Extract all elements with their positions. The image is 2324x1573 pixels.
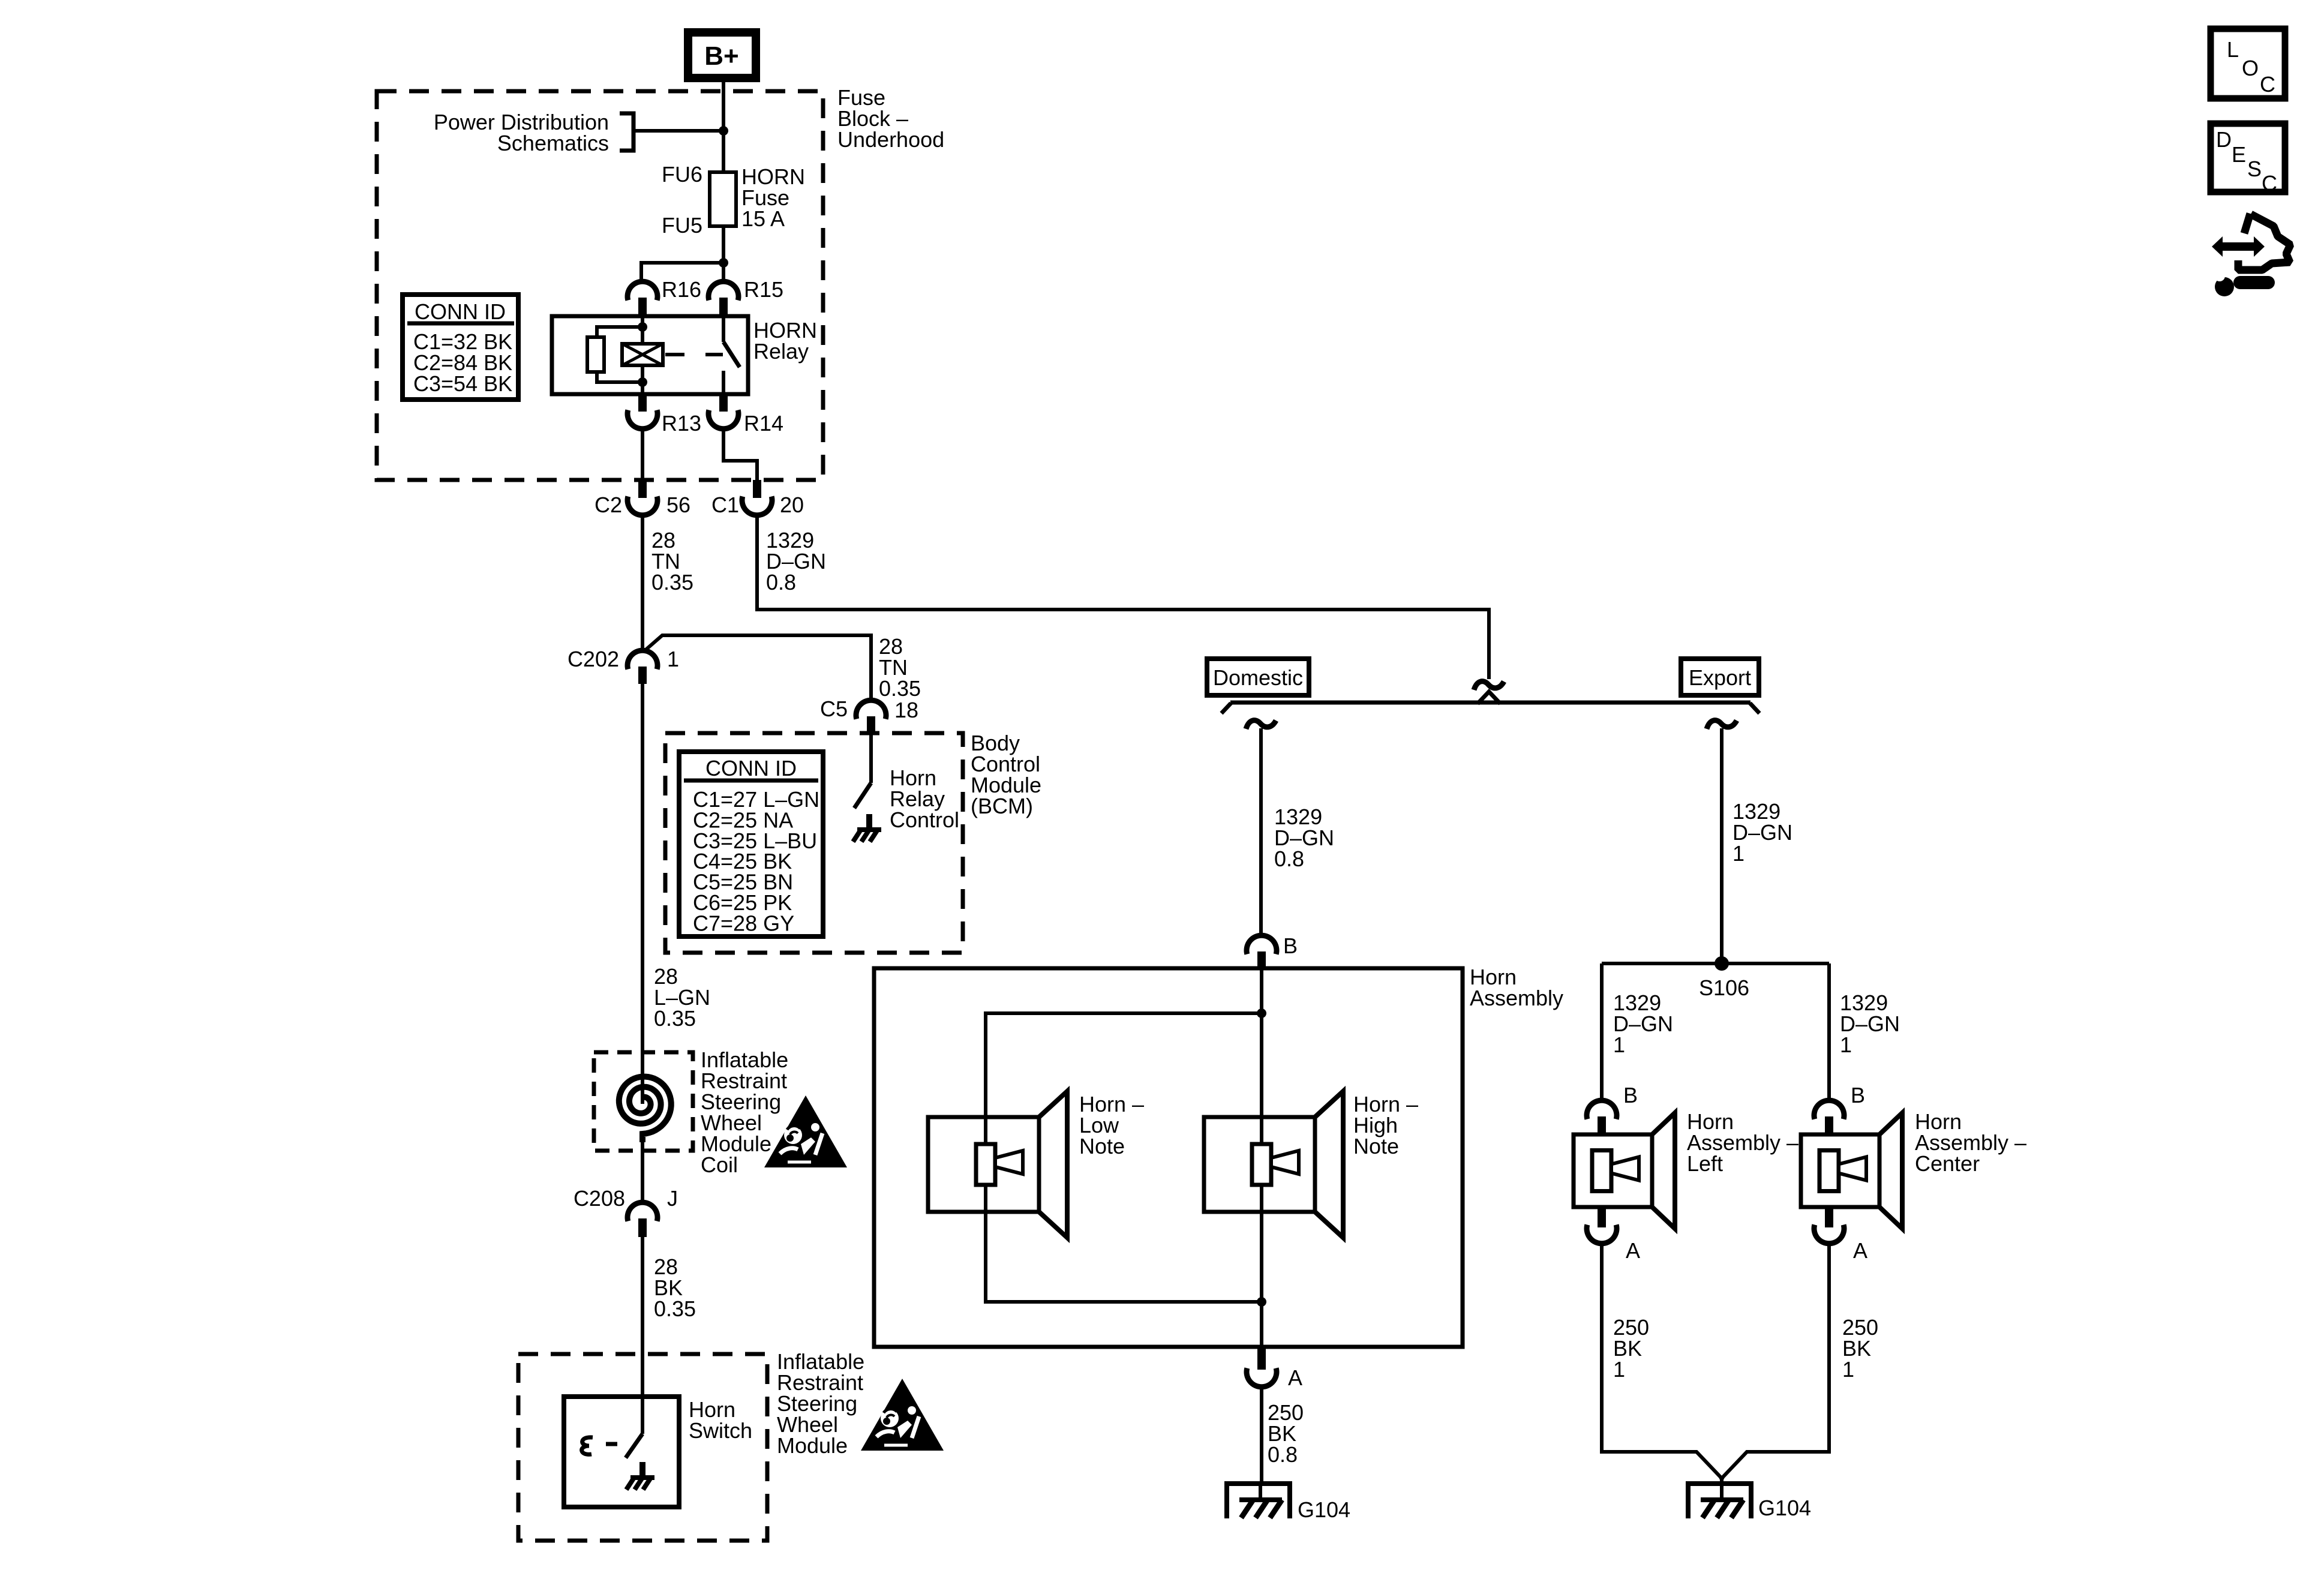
svg-text:1: 1 xyxy=(667,647,679,671)
wire C202 to coil / label 28 L-GN 0.35 xyxy=(641,684,644,1104)
relay coil X-box xyxy=(622,344,663,365)
svg-text:A: A xyxy=(1288,1365,1302,1390)
wire C2 to C202 / label 28 TN 0.35 xyxy=(641,514,644,651)
connector C208 pin J xyxy=(627,1202,657,1237)
wire C1 down and across / label 1329 D-GN 0.8 xyxy=(757,514,1489,679)
ground G104 export xyxy=(1720,1477,1724,1484)
wire R14 to C1 xyxy=(723,428,757,481)
connector A horn left xyxy=(1587,1207,1617,1244)
wire left export drop / label 1329 D-GN 1 left xyxy=(1600,963,1604,1101)
horn assembly center speaker xyxy=(1801,1113,1902,1229)
relay switch xyxy=(723,316,740,394)
wire export branch / label 1329 D-GN 1 xyxy=(1720,728,1724,963)
options bracket xyxy=(1221,692,1759,713)
svg-text:HORNRelay: HORNRelay xyxy=(753,318,817,364)
svg-text:C5: C5 xyxy=(820,697,848,721)
icon box LOC xyxy=(2211,29,2285,98)
svg-text:20: 20 xyxy=(780,493,804,517)
svg-text:G104: G104 xyxy=(1758,1496,1811,1520)
svg-text:O: O xyxy=(2242,56,2259,80)
connector C202 pin 1 xyxy=(627,650,657,684)
wire power distribution tap xyxy=(635,129,723,133)
wire C208 to horn switch / label 28 BK 0.35 xyxy=(641,1237,644,1434)
svg-text:18: 18 xyxy=(894,698,918,722)
junction dot power tap xyxy=(719,126,728,136)
svg-text:C208: C208 xyxy=(574,1186,625,1211)
horn high note speaker xyxy=(1204,1091,1343,1238)
ground in horn switch xyxy=(626,1462,654,1490)
wire left horn to ground / label 250 BK 1 xyxy=(1602,1243,1722,1479)
svg-text:C: C xyxy=(2260,72,2275,97)
svg-text:C1=32 BKC2=84 BKC3=54 BK: C1=32 BKC2=84 BKC3=54 BK xyxy=(413,329,512,396)
svg-text:B: B xyxy=(1851,1083,1865,1107)
junction dot coil bottom xyxy=(638,377,647,387)
resistor parallel loop xyxy=(587,327,642,382)
svg-text:R16: R16 xyxy=(662,277,701,302)
connector B horn center xyxy=(1814,1100,1844,1134)
connector C2 pin 56 xyxy=(627,480,657,515)
junction dot loop top xyxy=(1257,1008,1266,1018)
horn switch inner box xyxy=(564,1397,679,1507)
inner loop wiring xyxy=(986,1013,1262,1302)
wire A to ground / label 250 BK 0.8 xyxy=(1260,1385,1263,1484)
svg-text:R15: R15 xyxy=(744,277,783,302)
break squiggle on feed wire xyxy=(1474,682,1504,690)
svg-text:C202: C202 xyxy=(568,647,619,671)
svg-text:L: L xyxy=(2227,37,2239,62)
horn switch blade xyxy=(626,1434,642,1458)
wire S106 horizontal xyxy=(1602,962,1829,965)
fuse FU6/FU5 HORN Fuse 15 A xyxy=(710,172,736,226)
svg-text:Export: Export xyxy=(1689,665,1751,690)
svg-text:B+: B+ xyxy=(704,41,738,71)
icon car direction arrow with wrench xyxy=(2212,214,2290,296)
connector R15 xyxy=(708,281,738,316)
connector table CONN ID BCM xyxy=(679,752,823,936)
svg-text:CONN ID: CONN ID xyxy=(415,299,506,324)
ground G104 domestic xyxy=(1227,1484,1290,1518)
fuse block dashed box xyxy=(377,91,823,480)
wire branch C202 to BCM C5 xyxy=(644,635,871,701)
switch Horn Relay Control in BCM xyxy=(854,734,871,808)
svg-text:FU6: FU6 xyxy=(662,162,702,187)
power symbol B+ xyxy=(688,32,756,78)
svg-text:S: S xyxy=(2247,157,2262,181)
svg-text:R14: R14 xyxy=(744,411,783,436)
bracket to Power Distribution Schematics xyxy=(620,113,633,151)
connector table CONN ID fuse block xyxy=(403,295,518,400)
svg-text:R13: R13 xyxy=(662,411,701,436)
wire fuse to junction xyxy=(722,226,725,263)
connector R16 xyxy=(627,281,657,316)
horn low note speaker xyxy=(928,1091,1067,1238)
connector C5 pin 18 xyxy=(856,700,886,734)
wire coil to C208 xyxy=(641,1136,644,1203)
horn assembly left speaker xyxy=(1574,1113,1675,1229)
relay HORN Relay box xyxy=(552,316,748,394)
svg-text:CONN ID: CONN ID xyxy=(705,756,797,781)
connector B horn left xyxy=(1587,1100,1617,1134)
svg-text:Domestic: Domestic xyxy=(1213,665,1303,690)
horn switch contact xyxy=(582,1437,593,1455)
svg-text:A: A xyxy=(1853,1238,1867,1263)
wire center horn to ground / label 250 BK 1 xyxy=(1722,1243,1829,1479)
wire right export drop / label 1329 D-GN 1 right xyxy=(1827,963,1831,1101)
connector A horn assembly xyxy=(1247,1347,1277,1387)
icon box DESC xyxy=(2211,124,2285,196)
svg-text:A: A xyxy=(1626,1238,1640,1263)
junction dot loop bottom xyxy=(1257,1297,1266,1307)
svg-text:J: J xyxy=(667,1186,678,1211)
steering wheel coil dashed box xyxy=(594,1052,693,1151)
airbag warning triangle 2 xyxy=(861,1379,944,1451)
option box Export xyxy=(1681,659,1759,695)
clockspring spiral xyxy=(619,1077,671,1142)
svg-text:D: D xyxy=(2216,127,2232,152)
svg-text:C: C xyxy=(2262,171,2277,196)
airbag warning triangle 1 xyxy=(764,1095,847,1167)
connector R13 xyxy=(627,394,657,429)
svg-text:C2: C2 xyxy=(594,493,622,517)
svg-text:B: B xyxy=(1283,933,1298,958)
junction dot coil top xyxy=(638,322,647,332)
ground in BCM xyxy=(853,814,881,842)
wire domestic branch / label 1329 D-GN 0.8 xyxy=(1259,728,1263,936)
connector B horn assembly xyxy=(1247,935,1277,968)
svg-text:G104: G104 xyxy=(1298,1497,1350,1522)
connector R14 xyxy=(708,394,738,429)
wire B+ to fuse xyxy=(722,78,725,174)
wire R13 to C2 xyxy=(641,428,644,481)
horn switch link dash xyxy=(606,1442,617,1446)
svg-text:Schematics: Schematics xyxy=(497,131,609,155)
svg-text:C1: C1 xyxy=(711,493,739,517)
BCM dashed box xyxy=(665,733,963,953)
break squiggle domestic branch xyxy=(1246,721,1276,729)
svg-text:E: E xyxy=(2232,142,2246,167)
wire junction to R15 xyxy=(722,263,725,282)
junction dot below fuse xyxy=(719,258,728,268)
svg-text:B: B xyxy=(1623,1083,1638,1107)
wire junction to R16 xyxy=(641,263,723,282)
relay coil wire top xyxy=(641,316,644,344)
svg-text:56: 56 xyxy=(666,493,690,517)
junction dot S106 xyxy=(1715,956,1729,971)
horn assembly box xyxy=(874,968,1463,1347)
svg-text:S106: S106 xyxy=(1699,975,1749,1000)
relay coil wire bottom xyxy=(641,365,644,394)
wire main vertical in horn assembly xyxy=(1260,968,1263,1347)
connector A horn center xyxy=(1814,1207,1844,1244)
break squiggle export branch xyxy=(1707,721,1737,729)
horn switch dashed box xyxy=(518,1354,767,1541)
svg-text:FU5: FU5 xyxy=(662,213,702,238)
option box Domestic xyxy=(1207,659,1309,695)
connector C1 pin 20 xyxy=(742,480,772,515)
relay armature link dashes xyxy=(665,353,723,356)
